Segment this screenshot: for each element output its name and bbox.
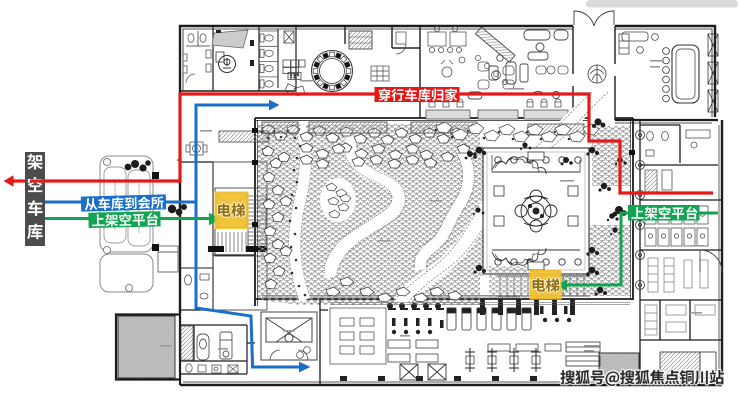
red route polyline — [178, 94, 713, 193]
spa massage bed — [220, 332, 232, 359]
rock band left — [262, 146, 292, 289]
accessible wc — [216, 52, 236, 73]
elevator shaft south under label — [531, 271, 560, 298]
garage wheel circles — [103, 158, 132, 291]
yellow elevator box south — [530, 270, 562, 300]
terrace center medallion — [515, 190, 557, 232]
shaft window and stools right of toilets — [283, 31, 305, 80]
right wing wc fixtures — [645, 130, 710, 194]
door frame marks courtyard wall — [252, 128, 635, 227]
stone walk top right — [436, 122, 599, 142]
rock band top — [262, 125, 470, 168]
spa tub — [197, 334, 209, 360]
storage machine room gray — [118, 316, 175, 378]
shower stalls — [645, 206, 708, 246]
banquet sofa top — [622, 32, 658, 53]
lounge sofas top — [524, 30, 568, 60]
flower pots right column — [636, 131, 645, 290]
stair landing bars — [208, 246, 267, 252]
stream banks center — [324, 136, 405, 279]
dining terrace platform — [483, 148, 589, 274]
winding path white — [392, 92, 608, 303]
stream banks right — [414, 152, 474, 272]
terrace mini tables — [494, 152, 578, 270]
bottom fixtures row — [340, 376, 613, 381]
garage outer rounded rect — [100, 156, 153, 292]
gym bench rows extra — [488, 344, 561, 351]
plant cluster at wall — [168, 204, 187, 215]
toilets right column — [259, 29, 278, 88]
blue label box 从车库到会所 — [81, 194, 166, 211]
left wing wc fixtures — [185, 274, 210, 299]
tea table cluster — [441, 57, 465, 77]
banquet side cabinet — [619, 34, 629, 54]
stair treads lower flight — [218, 232, 246, 252]
sofa and tv group mid lounge — [489, 55, 528, 84]
scallop groundcover right — [560, 126, 630, 296]
spa block walls — [180, 325, 255, 374]
treadmills — [447, 308, 531, 330]
kettlebell row — [387, 303, 444, 310]
outer wall top middle and right — [420, 26, 715, 117]
pool texture left of south elevator — [489, 266, 529, 298]
beauty room — [261, 312, 317, 360]
small room top right of round room — [396, 32, 406, 54]
squat racks — [400, 364, 446, 380]
green route left with arrow into elevator — [45, 213, 221, 225]
locker benches women — [648, 258, 708, 292]
mahjong table — [186, 142, 207, 155]
service cabinet hatched — [349, 31, 372, 49]
left wing outer wall — [177, 94, 180, 313]
sauna room — [660, 352, 716, 378]
entrance double door — [574, 11, 614, 26]
courtyard right wall x633 — [631, 118, 634, 300]
gym west wall — [320, 299, 328, 385]
banquet long table — [663, 45, 699, 103]
elevator stair block outline — [213, 162, 267, 310]
yoga room — [330, 308, 386, 364]
spa wc fixtures — [186, 364, 238, 373]
rocks scattered bottom — [326, 277, 462, 302]
garage plants cluster — [125, 160, 151, 172]
grid table — [371, 66, 389, 81]
gym benches — [388, 340, 438, 362]
barbell stations — [465, 348, 541, 372]
reception diagonal counter — [476, 27, 515, 62]
garage stalls — [104, 167, 150, 246]
art hall plant — [588, 65, 606, 83]
dark plant clusters courtyard — [465, 118, 627, 295]
left wing inner walls — [180, 162, 255, 310]
green label box 上架空平台 left — [88, 211, 160, 228]
lounge walls x420 x573 x615 — [420, 26, 615, 120]
yellow elevator box west — [215, 192, 249, 230]
left wing lower room walls — [180, 268, 213, 310]
green label box 上架空平台 right — [628, 205, 700, 221]
terrace booths top — [492, 155, 581, 174]
dumbbell rack — [566, 342, 600, 366]
lockers men — [645, 305, 715, 335]
gate kiosk — [158, 246, 178, 272]
equipment room hatched — [599, 353, 639, 376]
balcony door arc right — [700, 250, 722, 272]
red label box 穿行车库归家 — [375, 87, 460, 102]
red arrow to garage — [4, 175, 181, 187]
pebble dots on paths — [261, 129, 571, 297]
office desks — [428, 26, 466, 52]
dark gray garage label box — [25, 152, 45, 246]
lounge dining tables south — [426, 99, 568, 119]
courtyard bottom wall / gym top wall — [255, 296, 633, 300]
stair treads right flight — [248, 194, 266, 248]
white island with rocks — [320, 178, 356, 222]
beauty room seats — [297, 347, 311, 359]
green route right — [556, 213, 718, 291]
planter strips hatched — [219, 122, 584, 142]
wall toilets/round room x213 x262 x296 — [180, 26, 420, 91]
right wing walls — [640, 120, 722, 385]
toilet stalls left column — [183, 31, 211, 83]
scrollbar top right gray — [586, 0, 738, 8]
courtyard top wall — [255, 118, 633, 121]
banquet bottom wall — [615, 120, 718, 123]
gym equipment row top — [480, 299, 575, 316]
terrace steps south — [498, 276, 590, 296]
watermark sohu — [560, 370, 724, 386]
gym window strip — [330, 303, 630, 305]
corridor fixtures — [216, 30, 254, 66]
red arrow over garage label re-draw — [30, 179, 45, 182]
right wing outer wall lower — [719, 120, 722, 385]
gym extra equipment marks — [392, 306, 571, 334]
tiny grey labels — [160, 60, 704, 352]
elevator shaft — [217, 193, 247, 227]
path left side white — [289, 126, 312, 300]
changing strip hatched — [181, 326, 193, 360]
courtyard left wall x255 — [255, 118, 258, 306]
outer wall top-left block — [180, 26, 420, 94]
lounge armchair groups — [478, 62, 568, 89]
blue route vertical and top arrow — [45, 100, 311, 373]
booth sofas lounge south — [428, 92, 560, 100]
outer wall bottom and annex — [116, 310, 722, 385]
scallop groundcover main — [258, 124, 483, 305]
garage columns black — [152, 172, 159, 251]
rotated chairs below — [285, 84, 305, 96]
round banquet table — [312, 51, 353, 92]
banquet window hatches — [708, 34, 718, 112]
terrace booths bottom — [492, 248, 581, 265]
sewage lift space gray quad — [212, 30, 248, 48]
